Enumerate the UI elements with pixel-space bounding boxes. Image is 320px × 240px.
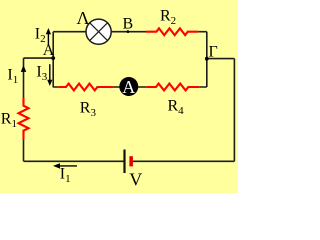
wire: bottom row right of battery bbox=[133, 160, 235, 162]
wire: bottom row left of battery bbox=[24, 160, 124, 162]
wire: vertical A up bbox=[52, 32, 54, 58]
ammeter A bbox=[119, 77, 138, 97]
wire: gamma row bbox=[207, 58, 235, 60]
wire: top row R2 right to corner bbox=[198, 31, 207, 33]
lamp Λ bbox=[86, 19, 111, 44]
wire: top row lamp right to R2 bbox=[111, 31, 146, 33]
node A dot bbox=[51, 56, 55, 60]
wire: top row lamp left bbox=[53, 31, 86, 33]
svg-text:Γ: Γ bbox=[209, 44, 218, 61]
arrow I2 (up) bbox=[46, 28, 51, 45]
resistor R4 bbox=[146, 84, 199, 91]
resistor R1 bbox=[19, 98, 29, 140]
wire: middle branch stubs bbox=[53, 86, 207, 88]
node Gamma dot bbox=[205, 57, 209, 61]
resistor R2 bbox=[146, 28, 198, 35]
wire: vertical A down bbox=[52, 58, 54, 87]
arrow I3 (down) bbox=[47, 64, 52, 86]
wire: A row horizontal bbox=[24, 57, 54, 59]
wire: outer right vertical bbox=[233, 59, 235, 162]
arrow I1 on left wire (up) bbox=[21, 65, 27, 72]
arrow I1 bottom (left) bbox=[53, 163, 77, 168]
resistor R3 bbox=[58, 84, 114, 91]
wire: left vertical (A row down to bottom, black parts around R1) bbox=[23, 58, 25, 161]
svg-text:B: B bbox=[123, 16, 134, 33]
svg-text:Λ: Λ bbox=[77, 8, 90, 28]
svg-text:V: V bbox=[129, 170, 142, 190]
wire: inner right vertical bbox=[206, 32, 208, 87]
node B dot bbox=[127, 30, 130, 33]
battery V bbox=[125, 150, 133, 174]
svg-text:A: A bbox=[122, 77, 135, 97]
